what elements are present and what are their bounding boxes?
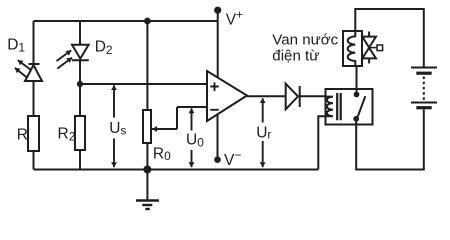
- node V- terminal dot: [214, 156, 221, 163]
- wire: V+ stub down to op-amp: [217, 10, 219, 78]
- wire: D2 to junction and R2: [79, 60, 81, 116]
- op-amp - pin symbol: [210, 109, 218, 111]
- svg-text:R: R: [17, 126, 28, 143]
- wiper arrow of R0: [152, 128, 177, 130]
- wire: R to bottom rail: [33, 151, 35, 170]
- svg-text:Van nước: Van nước: [272, 31, 338, 48]
- solenoid valve box: [343, 31, 362, 66]
- valve stubs: [368, 32, 370, 64]
- measurement arrow Us: [113, 85, 115, 117]
- battery cell 2 long plate: [411, 102, 437, 104]
- relay coil: [326, 97, 334, 117]
- relay contact bottom: [353, 116, 359, 122]
- resistor R2: [75, 116, 85, 150]
- potentiometer R0: [143, 110, 151, 143]
- LED D1: [29, 63, 40, 65]
- svg-text:R0: R0: [153, 146, 171, 164]
- relay box: [326, 89, 373, 125]
- battery cell 1 short plate: [416, 72, 431, 75]
- wire: op-amp output: [247, 95, 286, 97]
- wire: valve top to battery positive: [355, 9, 424, 68]
- wire: relay switch bottom to battery rail: [356, 110, 424, 170]
- svg-text:điện từ: điện từ: [272, 47, 319, 64]
- op-amp U1: [207, 71, 247, 121]
- wire: D2 cathode from rail: [79, 21, 81, 45]
- relay core: [337, 93, 341, 120]
- svg-text:U0: U0: [186, 131, 204, 149]
- resistor R: [28, 116, 39, 151]
- wire: inverting input to op-amp: [177, 106, 207, 108]
- svg-text:Ur: Ur: [256, 125, 271, 142]
- wire: R2 to bottom rail: [79, 150, 81, 170]
- diode in series with relay coil: [286, 84, 298, 110]
- wire: relay coil return to bottom rail: [318, 116, 325, 169]
- node: ground junction: [143, 166, 151, 174]
- measurement arrow Ur: [262, 98, 264, 122]
- svg-text:V+: V+: [226, 8, 243, 29]
- battery dashed middle: [423, 77, 425, 101]
- relay contact top: [354, 92, 360, 98]
- battery cell 2 short plate: [416, 106, 431, 109]
- light arrows of D1: [18, 60, 31, 70]
- wire: D1 anode from rail: [33, 21, 35, 64]
- wire: diode to relay coil: [300, 95, 326, 97]
- valve solenoid coil: [348, 31, 356, 66]
- relay switch lever: [358, 96, 366, 116]
- valve body (two triangles): [362, 37, 376, 48]
- wire: wiper riser: [176, 107, 178, 129]
- photodiode D2: [72, 45, 89, 59]
- wire: non-inverting input from junction to op-amp: [80, 83, 207, 85]
- node: rail-R0 junction: [144, 18, 151, 25]
- svg-text:R2: R2: [58, 125, 76, 143]
- ground: [146, 170, 148, 201]
- wire: D1 to R: [33, 81, 35, 116]
- svg-text:V−: V−: [224, 148, 241, 169]
- light arrows of D2: [57, 50, 72, 61]
- valve pilot square: [369, 47, 377, 49]
- svg-text:Us: Us: [109, 120, 126, 138]
- wire: relay switch to valve: [356, 66, 358, 95]
- wire: bottom rail: [34, 169, 319, 171]
- svg-text:D2: D2: [95, 38, 113, 57]
- node: D2-R2 junction: [77, 81, 83, 87]
- wire: V- stub: [217, 114, 219, 159]
- op-amp + pin symbol: [210, 82, 218, 91]
- svg-text:D1: D1: [7, 37, 25, 55]
- wire: top supply rail: [34, 20, 218, 22]
- wire: R0 bottom to rail: [146, 143, 148, 170]
- battery cell 1 long plate: [411, 67, 437, 69]
- node V+ terminal dot: [214, 7, 221, 14]
- wire: rail to R0 top: [146, 21, 148, 110]
- measurement arrow U0: [191, 108, 193, 130]
